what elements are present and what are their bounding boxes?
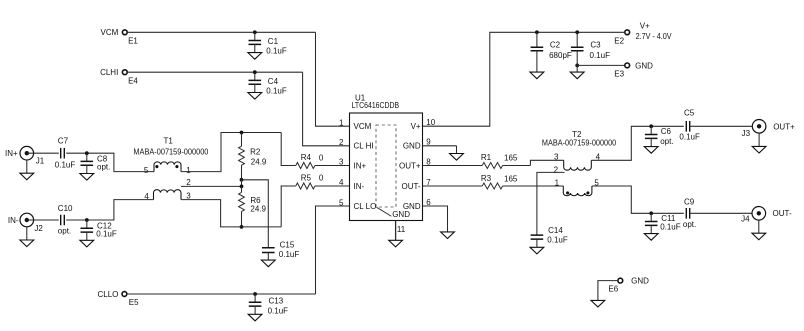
wire T1 pin 3 to bottom rail [181,200,281,227]
U1 pad GND tie [377,207,411,219]
capacitor C6 opt. [645,126,674,146]
svg-text:0.1uF: 0.1uF [266,87,287,96]
svg-text:R2: R2 [250,148,261,157]
svg-text:C14: C14 [548,226,563,235]
svg-text:E6: E6 [608,285,618,294]
svg-text:2.7V - 4.0V: 2.7V - 4.0V [636,32,673,41]
svg-text:CL HI: CL HI [354,142,374,151]
wire T2 pin 2 center tap [537,166,565,235]
capacitor C10 opt. (series) [58,204,73,235]
resistor R2 24.9 [239,133,267,180]
resistor R3 165 [423,174,564,189]
svg-text:3: 3 [339,158,344,167]
wire U1 pin 6 GND [423,206,448,232]
svg-text:J2: J2 [34,224,43,233]
node R6 bottom junction [240,225,244,229]
connector J2 (IN-) [8,213,44,233]
ground (J3) [752,133,766,153]
svg-text:0.1uF: 0.1uF [547,235,568,244]
ground (C6) [644,138,658,153]
U1 pin number 7 [426,178,431,187]
svg-text:4: 4 [144,192,149,201]
svg-text:GND: GND [403,142,421,151]
svg-text:CL LO: CL LO [354,202,377,211]
wire C10 to T1 pin 4 [66,200,153,220]
svg-text:0.1uF: 0.1uF [660,222,681,231]
svg-text:10: 10 [426,118,435,127]
svg-text:2: 2 [339,138,344,147]
wire CLLO net E5 to U1 pin 5 [127,206,350,294]
wire J1 to C7 [27,152,59,154]
svg-text:LTC6416CDDB: LTC6416CDDB [352,101,400,110]
svg-text:2: 2 [186,178,191,187]
ground (E6) [591,300,605,307]
U1 pin 11 stub [396,221,406,241]
connector J1 (IN+) [5,146,45,165]
U1 pin name OUT+ [399,161,421,170]
wire C7 to T1 pin 5 [66,153,154,171]
svg-text:C15: C15 [280,241,295,250]
terminal E5 (CLLO) [97,290,139,307]
svg-text:4: 4 [339,178,344,187]
ground (U1 pin 11) [389,240,403,247]
capacitor C8 opt. [81,153,111,171]
U1 exposed pad (dashed) [376,125,396,207]
node C8 junction [85,151,89,155]
transformer T1 MABA-007159-000000 primary winding (pins 5-1) [133,136,209,171]
svg-text:OUT-: OUT- [773,209,792,218]
svg-text:C3: C3 [590,41,601,50]
resistor R1 165 [423,153,531,169]
svg-text:0.1uF: 0.1uF [590,51,611,60]
ground (J2) [20,227,34,247]
capacitor C1 0.1uF [249,32,287,55]
transformer T1 secondary winding (pins 4-3) [154,190,182,200]
U1 pin name GND (9) [403,142,421,151]
U1 pin name VCM [354,122,372,131]
svg-text:0.1uF: 0.1uF [96,229,117,238]
U1 pin name IN- [354,182,365,191]
node VCM/C1 junction [253,30,257,34]
capacitor C15 0.1uF [262,241,299,260]
svg-text:MABA-007159-000000: MABA-007159-000000 [542,138,617,147]
wire J2 to C10 [27,219,59,221]
svg-text:OUT-: OUT- [401,182,420,191]
ground (C4) [248,84,262,99]
node R2 top junction [240,131,244,135]
svg-text:GND: GND [403,202,421,211]
wire T2 pin 5 to OUT- row [592,186,684,213]
svg-text:opt.: opt. [58,227,71,236]
svg-text:GND: GND [392,210,410,219]
capacitor C13 0.1uF [249,294,288,316]
svg-text:C7: C7 [58,136,69,145]
svg-text:E5: E5 [129,298,139,307]
T2 pin 3 label [554,152,559,161]
T2 pin 5 label [594,178,599,187]
svg-text:V+: V+ [640,22,650,31]
wire T1 pin 1 to top rail [181,133,281,172]
svg-text:C4: C4 [268,77,279,86]
svg-text:3: 3 [186,191,191,200]
ground (J4) [752,220,766,240]
transformer T2 MABA-007159-000000 primary winding (pins 3-4) [542,130,617,170]
wire V+ rail E2 to U1 pin 10 [423,32,625,126]
U1 pin name OUT- [401,182,420,191]
U1 pin name CL HI [354,142,374,151]
capacitor C9 opt. (series) [683,197,696,229]
T1 pin 3 label [186,191,191,200]
node V+/C2 junction [535,30,539,34]
terminal E4 (CLHI) [100,68,138,86]
capacitor C11 0.1uF [645,213,681,231]
svg-text:0.1uF: 0.1uF [266,47,287,56]
svg-text:165: 165 [504,154,518,163]
terminal E2 (V+ 2.7V - 4.0V) [614,22,672,46]
ground (J1) [20,160,34,180]
wire center link [241,180,243,187]
capacitor C14 0.1uF [531,226,568,244]
U1 pin number 4 [339,178,344,187]
svg-text:C5: C5 [684,109,695,118]
svg-text:680pF: 680pF [549,51,572,60]
resistor R4 0 [281,133,349,169]
svg-text:5: 5 [144,166,149,175]
svg-text:0.1uF: 0.1uF [55,161,76,170]
ground (U1 pin 6) [441,232,455,239]
U1 pin name GND (6) [403,202,421,211]
U1 pin number 9 [426,138,431,147]
node V+/C3 junction [575,30,579,34]
ground (C15) [261,253,275,267]
svg-text:11: 11 [397,225,406,234]
svg-text:CLHI: CLHI [100,68,118,77]
svg-text:MABA-007159-000000: MABA-007159-000000 [133,148,209,157]
svg-text:J1: J1 [36,156,45,165]
svg-text:GND: GND [635,61,653,70]
ground (C3) [570,65,584,78]
svg-text:165: 165 [504,174,518,183]
terminal E6 (GND) [608,277,649,294]
svg-text:VCM: VCM [101,28,119,37]
connector J3 (OUT+) [742,120,795,139]
svg-text:3: 3 [554,152,559,161]
svg-text:C1: C1 [268,37,279,46]
svg-text:24.9: 24.9 [250,205,266,214]
wire T2 pin 4 to OUT+ row [591,126,684,160]
capacitor C3 0.1uF [571,32,610,60]
svg-text:E4: E4 [128,77,138,86]
svg-text:0.1uF: 0.1uF [679,133,700,142]
ground (C12) [80,232,94,247]
svg-text:V+: V+ [411,122,421,131]
svg-text:1: 1 [555,178,560,187]
capacitor C7 0.1uF (series) [55,136,76,169]
node CLLO/C13 junction [253,292,257,296]
U1 pin name IN+ [354,161,367,170]
U1 pin number 5 [339,198,344,207]
T2 pin 4 label [596,152,601,161]
ground (C8) [80,165,94,180]
terminal E1 (VCM) [101,28,139,45]
svg-text:VCM: VCM [354,122,372,131]
U1 pin number 10 [426,118,435,127]
wire C15 tap [242,180,269,247]
resistor R6 24.9 [239,186,267,227]
T2 polarity dots [566,191,589,194]
svg-text:J4: J4 [741,215,750,224]
terminal E3 (GND) [577,61,653,78]
wire VCM net E1 to U1 pin 1 [127,32,349,126]
capacitor C2 680pF [531,32,572,60]
svg-text:R3: R3 [481,174,492,183]
node C6 junction [649,124,653,128]
node center tap junction [240,185,244,189]
wire T1 pin 2 center tap [181,178,242,187]
T1 pin 5 label [144,166,149,175]
T1 polarity dots [155,165,178,168]
svg-text:IN-: IN- [354,182,365,191]
wire CLHI net E4 to U1 pin 2 [127,72,349,146]
T1 pin 1 label [186,166,191,175]
connector J4 (OUT-) [741,207,792,224]
svg-text:OUT+: OUT+ [773,122,795,131]
svg-text:2: 2 [554,166,559,175]
U1 pin number 1 [339,118,344,127]
svg-text:CLLO: CLLO [97,290,118,299]
wire E6 to ground [598,281,618,301]
svg-text:OUT+: OUT+ [399,161,421,170]
node C12 junction [85,218,89,222]
T2 pin 1 label [555,178,560,187]
U1 pin number 2 [339,138,344,147]
ground (C14) [530,239,544,254]
svg-text:IN-: IN- [8,216,19,225]
capacitor C5 0.1uF (series) [679,109,700,142]
wire U1 pin 9 GND [423,145,457,147]
U1 pin name CL LO [354,202,377,211]
svg-text:E3: E3 [614,70,624,79]
svg-text:R5: R5 [301,173,312,182]
T1 pin 4 label [144,192,149,201]
svg-text:E2: E2 [614,36,624,45]
svg-text:C2: C2 [550,41,561,50]
U1 pin number 8 [426,157,431,166]
transformer T2 secondary winding (pins 1-5) [563,186,592,196]
svg-text:1: 1 [186,166,191,175]
svg-text:E1: E1 [128,37,138,46]
ground (C1) [248,44,262,59]
ground (U1 pin 9) [450,146,464,160]
U1 pin name V+ [411,122,421,131]
svg-text:R1: R1 [481,153,492,162]
svg-text:1: 1 [339,118,344,127]
wire C9 to J4 [690,212,752,214]
U1 pin number 3 [339,158,344,167]
svg-text:R4: R4 [301,153,312,162]
wire R1 to T2 pin 3 [530,160,563,165]
svg-text:24.9: 24.9 [251,158,267,167]
node R2 bottom / C15 tap junction [240,178,244,182]
svg-text:C10: C10 [58,204,73,213]
svg-text:0.1uF: 0.1uF [268,307,289,316]
ground (C13) [248,306,262,321]
svg-text:opt.: opt. [660,137,673,146]
svg-text:opt.: opt. [97,163,110,172]
op-amp U1 LTC6416CDDB body [350,94,423,221]
svg-text:IN+: IN+ [354,161,367,170]
resistor R5 0 [281,173,349,227]
svg-text:GND: GND [631,277,649,286]
U1 pin number 6 [426,198,431,207]
wire C5 to J3 [690,125,753,127]
svg-text:C9: C9 [684,197,695,206]
capacitor C4 0.1uF [249,72,287,95]
svg-text:T1: T1 [164,136,174,145]
svg-text:C13: C13 [269,297,284,306]
svg-text:0: 0 [319,153,324,162]
node C11 junction [649,211,653,215]
svg-text:IN+: IN+ [5,149,18,158]
svg-text:opt.: opt. [683,220,696,229]
ground (C2) [530,51,544,79]
capacitor C12 0.1uF [81,220,117,238]
svg-text:C6: C6 [661,127,672,136]
svg-text:0: 0 [319,174,324,183]
svg-text:0.1uF: 0.1uF [279,250,300,259]
node C3/E3 junction [575,51,579,68]
svg-text:J3: J3 [742,129,751,138]
node CLHI/C4 junction [253,70,257,74]
ground (C11) [644,225,658,240]
